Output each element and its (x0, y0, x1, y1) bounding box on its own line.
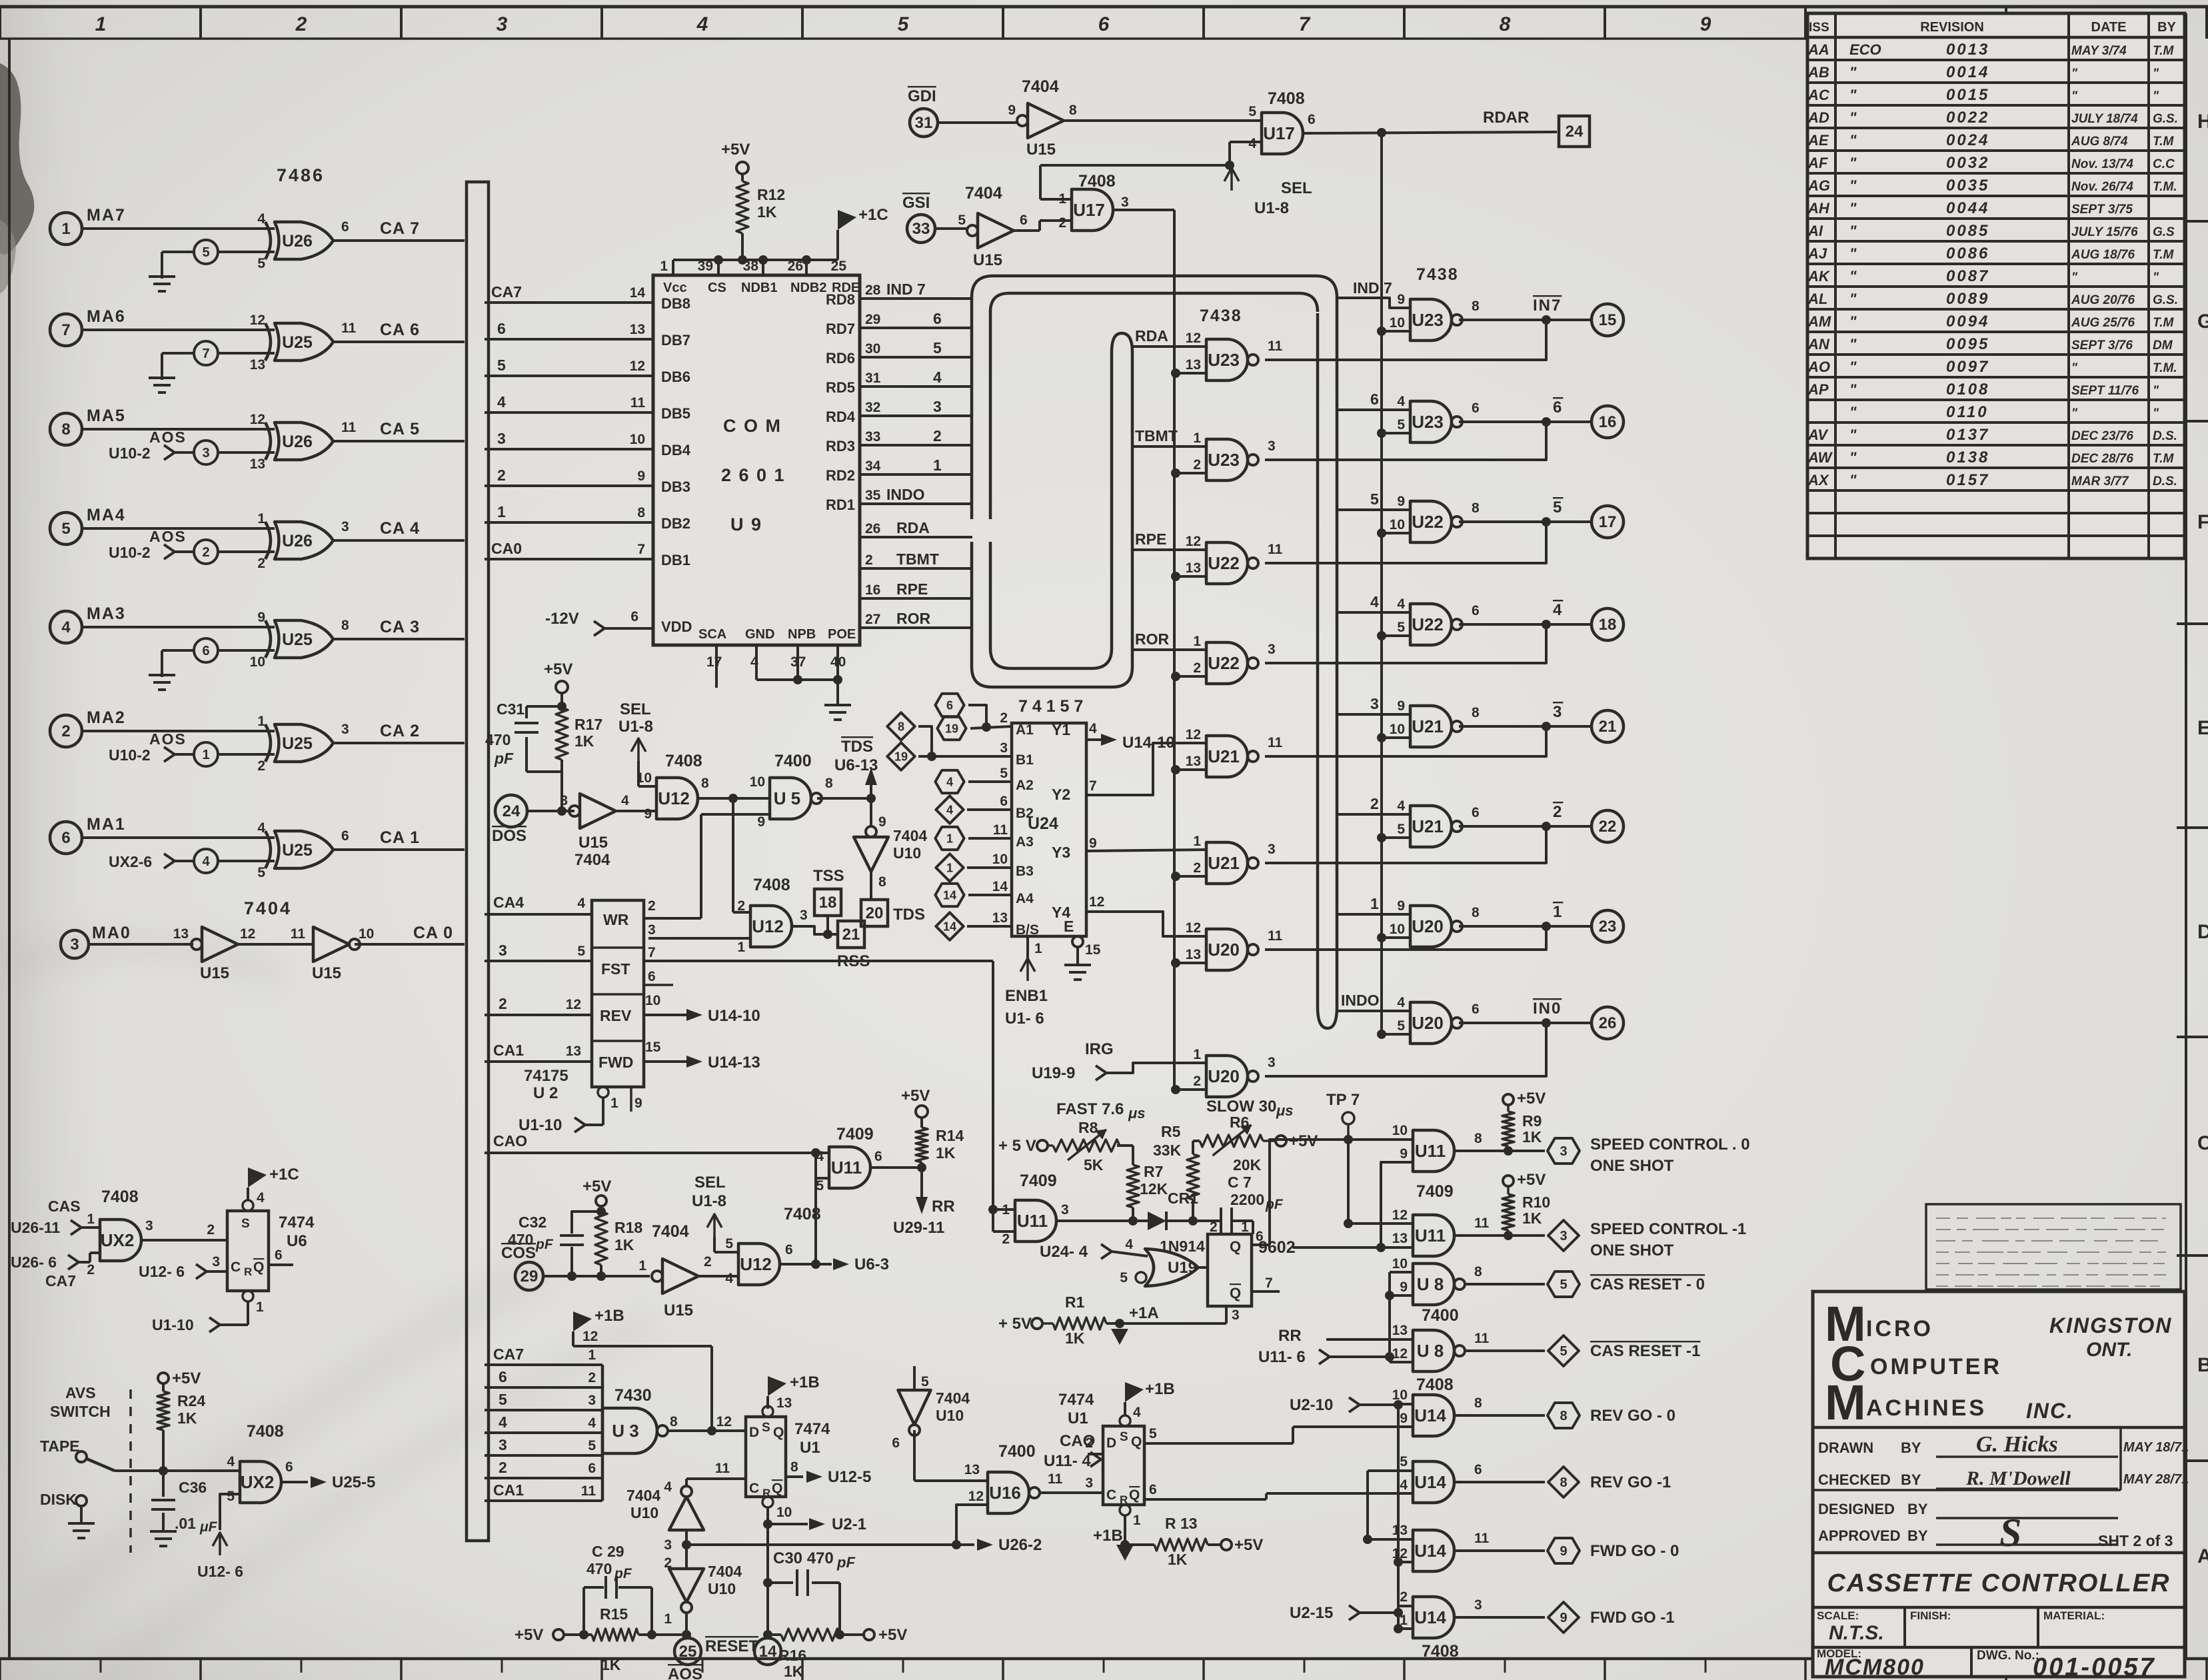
svg-text:Nov. 13/74: Nov. 13/74 (2071, 157, 2133, 171)
wire RD1 to bus loop (860, 502, 972, 505)
svg-text:MA1: MA1 (87, 815, 126, 834)
connector pin 18 output (1592, 608, 1624, 640)
svg-text:10: 10 (992, 852, 1008, 867)
svg-text:SEL: SEL (694, 1174, 726, 1192)
svg-text:DB8: DB8 (661, 295, 690, 312)
ground symbol at MA6 row (149, 377, 175, 379)
revision table header row (1807, 36, 2185, 39)
svg-text:U 9: U 9 (730, 514, 762, 534)
NAND gate U21 left column row 5 (1206, 736, 1248, 777)
wire CA1 to U3 pin11 (485, 1499, 602, 1502)
svg-text:2: 2 (61, 722, 70, 740)
switch arm TAPE (87, 1459, 115, 1471)
svg-text:2: 2 (737, 898, 745, 914)
AND gate U12 b (750, 906, 792, 947)
svg-text:5: 5 (1553, 498, 1563, 516)
svg-text:12: 12 (1392, 1208, 1408, 1223)
svg-text:6: 6 (1472, 1002, 1480, 1017)
svg-text:GDI: GDI (908, 87, 936, 105)
svg-text:T.M: T.M (2153, 316, 2174, 330)
svg-text:3: 3 (1268, 1055, 1276, 1070)
svg-text:1: 1 (946, 832, 953, 845)
svg-text:pF: pF (614, 1566, 632, 1581)
svg-text:B1: B1 (1016, 752, 1034, 768)
wire U24 Y4 route to U20a (1085, 912, 1206, 936)
svg-text:4: 4 (1397, 798, 1405, 814)
connector pin 29 COS (515, 1262, 543, 1290)
wire R8 to R7 top (1117, 1144, 1133, 1147)
svg-text:U26: U26 (282, 432, 313, 451)
svg-text:U10: U10 (936, 1407, 964, 1424)
wire bus 2 to U3 pin6 (485, 1477, 602, 1479)
svg-text:Vcc: Vcc (663, 281, 687, 295)
svg-text:1: 1 (1553, 903, 1563, 921)
svg-text:Q: Q (772, 1481, 782, 1496)
wire output row 4 to connector 18 (1459, 623, 1592, 626)
svg-text:1: 1 (1193, 834, 1201, 849)
wire U1a pin10 down to RESET node (766, 1507, 769, 1636)
svg-text:3: 3 (1553, 703, 1563, 721)
connector dia 9 FWD GO -1 (1548, 1602, 1579, 1633)
svg-text:AUG 20/76: AUG 20/76 (2071, 293, 2135, 307)
svg-text:5: 5 (497, 357, 506, 374)
wire U5 pin9 from WR output (701, 813, 770, 816)
svg-text:REVISION: REVISION (1920, 20, 1984, 35)
resistor R12 1K (736, 181, 748, 233)
hexagon tag 6 to U24 A1 (935, 694, 964, 716)
svg-text:1: 1 (497, 503, 506, 520)
XOR gate U25 row MA2 (265, 724, 271, 762)
svg-text:DATE: DATE (2091, 20, 2127, 35)
ground symbol at MA3 row (149, 674, 175, 676)
svg-text:3: 3 (1268, 842, 1276, 857)
svg-text:3: 3 (70, 936, 79, 954)
wire output row 6 to connector 22 (1459, 825, 1592, 828)
svg-text:RPE: RPE (896, 580, 928, 598)
svg-text:D.S.: D.S. (2153, 474, 2177, 488)
power flag +1C above U6 (248, 1168, 267, 1188)
svg-text:RD5: RD5 (826, 379, 855, 396)
svg-text:4: 4 (1397, 596, 1405, 612)
svg-text:TDS: TDS (893, 906, 925, 924)
svg-text:U23: U23 (1208, 450, 1240, 470)
svg-text:CA 1: CA 1 (380, 828, 420, 847)
svg-text:8: 8 (790, 1459, 798, 1475)
svg-text:3: 3 (497, 430, 506, 447)
svg-text:KINGSTON: KINGSTON (2049, 1313, 2172, 1337)
svg-text:0086: 0086 (1946, 245, 1989, 263)
wire CA4 to U2 pin4 (485, 913, 592, 916)
svg-text:R15: R15 (600, 1605, 628, 1623)
resistor R18 1K (595, 1212, 607, 1265)
svg-text:3: 3 (933, 398, 942, 415)
svg-text:": " (1849, 426, 1857, 443)
svg-text:RD6: RD6 (826, 350, 855, 367)
svg-text:4: 4 (202, 854, 210, 869)
svg-text:0097: 0097 (1946, 358, 1989, 376)
inverter U15 DOS buffer (580, 794, 616, 828)
wire second input from RDAR trunk row 5 (1377, 733, 1386, 742)
svg-text:2: 2 (257, 758, 265, 774)
wire second input from trunk U22 row 3 (1171, 572, 1180, 581)
connector pin 25 AOS (674, 1638, 701, 1665)
wire second input from RDAR trunk row 7 (1377, 933, 1386, 942)
wire U2-10 to U14a (1398, 1404, 1413, 1405)
svg-text:20K: 20K (1233, 1156, 1262, 1174)
svg-text:3: 3 (1268, 438, 1276, 454)
wire tag 5 to ground (162, 251, 194, 253)
inverter U10 down to TDS output (866, 826, 876, 837)
svg-text:C: C (1106, 1487, 1116, 1503)
svg-text:REV GO - 0: REV GO - 0 (1590, 1407, 1675, 1425)
wire +5V rail over chip (673, 259, 838, 261)
svg-text:U17: U17 (1263, 123, 1295, 143)
svg-text:DOS: DOS (492, 827, 527, 845)
potentiometer R6 20K (1200, 1135, 1263, 1147)
SEL arrow into U12c pin5 (707, 1214, 722, 1228)
wire bus to COM2601 DB8 (485, 301, 653, 304)
svg-text:JULY 15/76: JULY 15/76 (2071, 225, 2138, 239)
NAND gate U3 7430 (602, 1408, 657, 1453)
connector pin 17 output (1592, 506, 1624, 538)
wire trunk x2052 (1366, 1471, 1369, 1539)
oval tag 2 second input of MA4 gate (194, 540, 218, 564)
svg-text:pF: pF (836, 1554, 855, 1571)
wire MA0 to first inverter (89, 943, 193, 946)
svg-text:DM: DM (2153, 339, 2173, 353)
wire RDA from bus finger to U23 (1132, 345, 1206, 348)
connector box 20 TDS (861, 900, 888, 926)
svg-text:2: 2 (648, 898, 656, 914)
svg-text:5: 5 (1397, 417, 1405, 432)
svg-text:+5V: +5V (544, 660, 572, 678)
svg-text:U10: U10 (708, 1580, 736, 1597)
svg-text:6: 6 (874, 1149, 882, 1164)
AND gate U11 b (1015, 1200, 1056, 1242)
svg-text:6: 6 (61, 829, 70, 847)
inverter U15 COS (662, 1259, 698, 1293)
wire CA output row MA5 (333, 440, 465, 442)
hexagon tag 14 to U24 A4 (935, 884, 964, 906)
svg-text:AOS: AOS (149, 428, 187, 446)
connector pin 24 DOS (495, 795, 527, 827)
9602 pin 3 bottom (1225, 1306, 1228, 1323)
svg-text:U15: U15 (664, 1301, 693, 1319)
wire first input from bus ladder right row 1 (1337, 298, 1410, 308)
connector pin 26 output (1592, 1007, 1624, 1039)
AND gate UX2 a (100, 1220, 141, 1261)
one-shot 9602 U19 body (1208, 1234, 1252, 1306)
svg-text:8: 8 (878, 874, 886, 890)
svg-text:R12: R12 (757, 186, 785, 203)
connector pin 4 input MA3 (50, 611, 82, 643)
svg-text:U2-15: U2-15 (1290, 1604, 1333, 1622)
svg-text:5: 5 (1397, 620, 1405, 635)
wire RPE from bus finger to U22 (1132, 548, 1206, 551)
svg-text:UX2: UX2 (241, 1472, 275, 1492)
wire trunk x2098 lower (1397, 1405, 1400, 1629)
svg-text:12: 12 (1186, 534, 1201, 549)
svg-text:3: 3 (145, 1218, 153, 1234)
svg-text:MA5: MA5 (87, 407, 126, 425)
svg-text:7404: 7404 (708, 1563, 742, 1580)
svg-text:F: F (2197, 511, 2208, 533)
svg-text:U26-2: U26-2 (998, 1536, 1042, 1554)
U6 pin1 R bubble (243, 1291, 253, 1301)
wire wired-OR join from left column row 8 (1265, 1023, 1546, 1076)
wire output row 8 to connector 26 (1459, 1022, 1592, 1024)
svg-text:G.S: G.S (2153, 225, 2175, 239)
svg-text:RPE: RPE (1135, 530, 1166, 548)
wire between MA0 inverters (238, 943, 313, 946)
svg-text:1: 1 (256, 1299, 264, 1315)
right sheet border line (2185, 13, 2187, 1659)
svg-text:5: 5 (1248, 104, 1256, 119)
svg-text:5: 5 (202, 245, 209, 260)
oval tag 4 second input of MA1 gate (194, 849, 218, 873)
svg-text:9: 9 (1560, 1611, 1567, 1625)
svg-text:5: 5 (257, 256, 265, 271)
wire second input from trunk U21 row 6 (1171, 872, 1180, 881)
svg-text:R16: R16 (778, 1647, 806, 1664)
svg-text:470: 470 (485, 731, 511, 748)
wire U17a pin4 from SEL line (1230, 141, 1262, 143)
svg-text:U10-2: U10-2 (109, 746, 151, 764)
svg-text:U14: U14 (1414, 1472, 1446, 1492)
wire +5V to C31/R17 junction (527, 705, 562, 708)
wire U14d inputs (1398, 1605, 1413, 1607)
notes box (1926, 1204, 2181, 1289)
svg-text:12: 12 (582, 1329, 598, 1344)
svg-text:DISK: DISK (40, 1491, 77, 1508)
wire output REV GO -1 to connector (1454, 1481, 1545, 1483)
title block model row (1813, 1646, 2185, 1649)
inverter U15 GDI (1028, 103, 1064, 138)
svg-text:1: 1 (933, 456, 942, 474)
svg-text:CASSETTE CONTROLLER: CASSETTE CONTROLLER (1827, 1569, 2170, 1597)
svg-text:R8: R8 (1078, 1119, 1098, 1136)
svg-text:7408: 7408 (753, 876, 790, 894)
svg-text:3: 3 (212, 1254, 220, 1269)
svg-text:U23: U23 (1412, 412, 1444, 432)
svg-text:11: 11 (1474, 1216, 1490, 1231)
wire RD7 to bus loop (860, 327, 972, 329)
svg-text:U25: U25 (282, 630, 313, 649)
svg-text:C 7: C 7 (1228, 1174, 1252, 1191)
resistor R7 12K (1127, 1165, 1139, 1208)
svg-text:": " (2153, 384, 2159, 398)
svg-text:5: 5 (1120, 1270, 1128, 1285)
wire second input from RDAR trunk row 6 (1377, 833, 1386, 842)
AND gate U17 a (1262, 113, 1303, 154)
wire MA7 to XOR input (82, 227, 275, 230)
svg-text:+1A: +1A (1129, 1304, 1159, 1322)
svg-text:AOS: AOS (668, 1665, 702, 1680)
wire bus 6 to U3 pin2 (485, 1386, 602, 1389)
svg-text:C30 470: C30 470 (773, 1549, 834, 1567)
svg-text:6: 6 (275, 1248, 283, 1263)
NAND gate U22 right column row 4 (1410, 604, 1452, 645)
wire R1 line up to 9602 pin3 (1225, 1306, 1228, 1323)
wire CA output row MA3 (333, 638, 465, 640)
wire RDAR trunk vertical (1380, 133, 1383, 1034)
svg-text:8: 8 (61, 420, 70, 438)
wire UX2b output to U25-5 (281, 1481, 308, 1483)
NAND gate U23 left column row 1 (1206, 339, 1248, 381)
wire first input from bus ladder right row 5 (1337, 713, 1410, 716)
svg-text:3: 3 (1061, 1202, 1069, 1218)
wire U5 output to TDS node (817, 797, 871, 800)
connector pin 2 input MA2 (50, 715, 82, 747)
svg-text:FST: FST (601, 960, 630, 978)
svg-text:REV: REV (600, 1007, 632, 1024)
svg-text:NPB: NPB (788, 627, 816, 642)
wire tag 6 to ground (162, 649, 194, 652)
svg-text:10: 10 (250, 654, 265, 670)
svg-text:3: 3 (648, 922, 656, 938)
svg-text:U21: U21 (1208, 746, 1240, 766)
connector hex 3 SPEED CONTROL . 0 (1548, 1138, 1580, 1164)
wire U16 pin12 from U26-2 line (956, 1505, 988, 1545)
IC U2 74175 body (592, 900, 644, 1087)
wire second input from RDAR trunk row 3 (1377, 528, 1386, 538)
svg-text:0024: 0024 (1946, 131, 1989, 149)
svg-text:1K: 1K (1065, 1329, 1085, 1347)
svg-text:U11- 4: U11- 4 (1044, 1452, 1091, 1470)
svg-text:": " (1849, 223, 1857, 239)
wire U11b output through CR1 (1056, 1220, 1133, 1222)
svg-text:4: 4 (257, 820, 265, 836)
svg-text:0022: 0022 (1946, 109, 1989, 127)
wire second input from RDAR trunk row 8 (1377, 1030, 1386, 1039)
wire C7 to 9602 top pins (1252, 1221, 1254, 1234)
svg-text:AUG 25/76: AUG 25/76 (2071, 316, 2135, 330)
svg-text:U10-2: U10-2 (109, 444, 151, 462)
wire U12-6 up to UX2b pin5 (213, 1533, 227, 1546)
svg-text:SEL: SEL (1281, 179, 1312, 197)
svg-text:CA 2: CA 2 (380, 722, 420, 740)
svg-text:0013: 0013 (1946, 41, 1989, 59)
svg-text:AOS: AOS (149, 528, 187, 545)
svg-text:SEPT 11/76: SEPT 11/76 (2071, 384, 2139, 398)
svg-text:13: 13 (1392, 1323, 1408, 1338)
svg-text:6: 6 (1472, 401, 1480, 416)
AND gate U12 c (738, 1244, 780, 1285)
svg-text:8: 8 (898, 720, 904, 733)
svg-text:4: 4 (946, 803, 953, 816)
SEL arrow on U17 line (1225, 161, 1234, 170)
svg-text:-12V: -12V (545, 610, 579, 628)
wire first input from bus ladder right row 8 (1337, 1010, 1410, 1012)
wire CA output row MA2 (333, 742, 465, 744)
svg-text:B2: B2 (1016, 806, 1034, 821)
svg-text:2: 2 (207, 1222, 215, 1238)
svg-text:T.M: T.M (2153, 44, 2174, 58)
wire wired-OR join from left column row 5 (1265, 726, 1546, 756)
svg-text:9: 9 (1089, 836, 1097, 851)
revision table column lines (1834, 13, 1837, 558)
svg-text:1: 1 (257, 511, 265, 526)
svg-text:U12- 6: U12- 6 (139, 1263, 185, 1280)
svg-text:U26: U26 (282, 532, 313, 550)
wire bus to COM2601 DB3 (485, 484, 653, 487)
svg-text:M: M (1825, 1375, 1866, 1430)
svg-text:R7: R7 (1144, 1163, 1163, 1180)
svg-text:1K: 1K (936, 1144, 956, 1162)
wire output row 3 to connector 17 (1459, 520, 1592, 523)
svg-text:4: 4 (499, 1413, 507, 1431)
svg-text:AJ: AJ (1807, 245, 1827, 262)
svg-text:6: 6 (588, 1461, 596, 1476)
svg-text:MA7: MA7 (87, 206, 126, 225)
svg-text:RD7: RD7 (826, 321, 855, 337)
svg-text:1: 1 (660, 259, 668, 274)
wire inverter to TDS box (870, 872, 872, 900)
svg-text:": " (1849, 381, 1857, 398)
svg-text:T.M: T.M (2153, 452, 2174, 466)
oval tag 6 second input of MA3 gate (194, 638, 218, 662)
svg-text:8: 8 (1472, 500, 1480, 516)
svg-text:U16: U16 (989, 1483, 1021, 1503)
svg-text:4: 4 (1133, 1405, 1141, 1420)
svg-text:3: 3 (1268, 642, 1276, 657)
svg-text:DB3: DB3 (661, 478, 690, 495)
wire between oscillator inverters (685, 1530, 688, 1569)
svg-text:8: 8 (1560, 1475, 1567, 1490)
svg-text:NDB2: NDB2 (790, 281, 826, 295)
svg-text:4: 4 (257, 1190, 265, 1206)
svg-text:CA 3: CA 3 (380, 618, 420, 636)
svg-text:32: 32 (865, 400, 880, 415)
svg-text:29: 29 (521, 1267, 539, 1285)
svg-text:16: 16 (865, 582, 880, 598)
svg-text:6: 6 (1308, 112, 1316, 127)
svg-text:SHT 2 of 3: SHT 2 of 3 (2098, 1532, 2173, 1549)
svg-text:3: 3 (499, 942, 507, 959)
bus loop outer path (972, 276, 1337, 1028)
svg-text:.01: .01 (175, 1515, 196, 1532)
svg-text:15: 15 (645, 1040, 661, 1055)
svg-text:+1B: +1B (790, 1373, 820, 1391)
svg-text:0095: 0095 (1946, 335, 1989, 353)
wire U11a output to R14 node (870, 1166, 922, 1169)
svg-text:+1B: +1B (1093, 1527, 1123, 1545)
svg-text:U12: U12 (752, 916, 784, 936)
svg-text:U11: U11 (1415, 1226, 1446, 1246)
svg-text:1: 1 (638, 1258, 646, 1273)
svg-text:2: 2 (1193, 660, 1201, 676)
svg-text:R: R (244, 1265, 252, 1278)
svg-text:7: 7 (61, 321, 70, 339)
ground symbol below chip (836, 680, 839, 705)
svg-text:TDS: TDS (841, 738, 873, 756)
svg-text:U22: U22 (1208, 653, 1240, 673)
wire U24 Y2 route to U21a (1085, 743, 1206, 795)
svg-text:": " (1849, 472, 1857, 488)
wire bus to COM2601 DB6 (485, 375, 653, 377)
svg-text:1: 1 (61, 220, 70, 238)
svg-text:2: 2 (87, 1262, 95, 1277)
svg-text:6: 6 (341, 828, 349, 844)
wire CA0 vertical joins U6-3 line (815, 1178, 816, 1264)
XOR gate U25 row MA3 (265, 620, 271, 658)
resistor R5 33K (1187, 1154, 1199, 1200)
svg-text:GND: GND (745, 627, 774, 642)
svg-text:13: 13 (1186, 560, 1201, 576)
wire U12b output to box 21 (792, 926, 836, 934)
svg-text:3: 3 (1085, 1475, 1093, 1491)
svg-text:+5V: +5V (1517, 1090, 1546, 1108)
